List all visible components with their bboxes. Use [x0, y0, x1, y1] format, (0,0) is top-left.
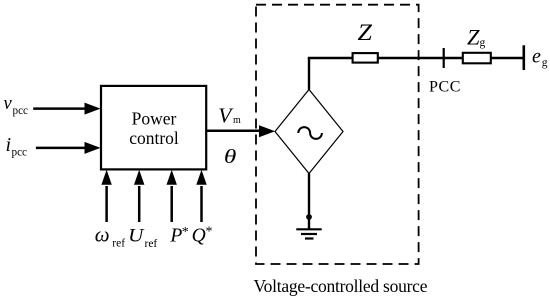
- svg-text:control: control: [129, 128, 179, 148]
- svg-text:g: g: [542, 57, 548, 69]
- wire ipcc input arrow: [36, 142, 101, 154]
- node ipcc label: [6, 134, 28, 158]
- ground: [296, 229, 321, 238]
- node Q* label: [192, 225, 213, 247]
- wire source top to Z: [308, 58, 353, 90]
- svg-text:g: g: [480, 37, 486, 49]
- node PCC tick: [443, 48, 445, 68]
- svg-text:i: i: [6, 134, 12, 156]
- block Power control: [101, 86, 206, 169]
- svg-text:ω: ω: [95, 223, 110, 247]
- svg-text:Z: Z: [358, 20, 373, 45]
- svg-text:*: *: [182, 225, 189, 240]
- sine symbol inside source: [298, 127, 322, 139]
- junction dot: [306, 214, 312, 220]
- wire omega-ref input arrow: [101, 170, 111, 222]
- node theta label: [224, 146, 236, 168]
- label Zg: [467, 25, 486, 50]
- node omega-ref label: [95, 223, 125, 250]
- svg-text:Q: Q: [192, 226, 206, 247]
- svg-text:pcc: pcc: [13, 105, 29, 117]
- wire Uref input arrow: [134, 170, 144, 222]
- grid terminal bar: [522, 45, 525, 70]
- svg-text:pcc: pcc: [12, 147, 28, 159]
- wire Q* input arrow: [196, 170, 206, 222]
- node vpcc label: [4, 94, 29, 117]
- svg-text:ref: ref: [112, 237, 125, 249]
- wire vpcc input arrow: [33, 103, 100, 115]
- wire Vm output arrow to source: [206, 125, 275, 137]
- svg-text:*: *: [206, 225, 213, 240]
- svg-text:e: e: [532, 46, 541, 68]
- svg-text:V: V: [218, 103, 234, 127]
- svg-text:v: v: [4, 94, 13, 114]
- svg-text:U: U: [128, 226, 145, 247]
- svg-text:Z: Z: [467, 25, 480, 50]
- svg-text:P: P: [169, 226, 182, 247]
- svg-text:ref: ref: [145, 238, 158, 250]
- svg-text:θ: θ: [224, 146, 236, 168]
- wire source bottom to ground: [308, 174, 310, 230]
- node Vm label: [218, 103, 241, 127]
- svg-text:PCC: PCC: [429, 79, 461, 96]
- svg-text:Power: Power: [132, 109, 177, 129]
- voltage source diamond: [275, 90, 343, 174]
- svg-text:Voltage-controlled source: Voltage-controlled source: [254, 276, 428, 296]
- wire Zg to grid terminal: [491, 57, 524, 59]
- resistor Zg: [463, 53, 491, 64]
- node P* label: [169, 225, 188, 247]
- svg-text:m: m: [233, 115, 241, 126]
- node Uref label: [128, 226, 157, 250]
- dashed box voltage-controlled source: [256, 5, 419, 264]
- wire P* input arrow: [167, 170, 177, 222]
- node eg label: [532, 46, 548, 69]
- wire Z to Zg: [378, 57, 463, 59]
- resistor Z: [353, 53, 378, 63]
